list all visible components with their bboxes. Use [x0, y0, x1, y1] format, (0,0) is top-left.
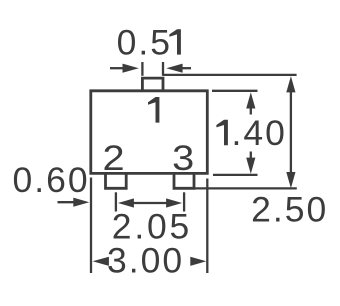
1.40 up arrowhead [246, 92, 255, 108]
2.50 up arrowhead [286, 76, 295, 92]
pin number 1 [148, 97, 159, 123]
1.40 dim lower shaft [250, 152, 252, 160]
extension tick right of 0.51 [162, 62, 164, 76]
0.51 right arrow shaft [182, 67, 191, 69]
1.40 dim upper shaft [250, 107, 252, 115]
top extension line to 2.50 [163, 74, 297, 76]
2.05 left arrowhead [118, 198, 134, 207]
right vertical extension for 3.00 [206, 179, 208, 274]
2.05 left tick [115, 192, 117, 211]
extension tick left of 0.51 [141, 62, 143, 76]
pin 2 lead [106, 173, 127, 188]
0.51 right arrowhead [166, 64, 182, 73]
svg-text:3.00: 3.00 [107, 241, 184, 281]
bottom extension line to 2.50 [194, 187, 297, 189]
0.51 left arrow shaft [110, 67, 124, 69]
package body [91, 91, 208, 174]
0.60 arrow shaft [58, 201, 76, 203]
svg-text:2.50: 2.50 [251, 190, 328, 230]
0.51 left arrowhead [123, 64, 139, 73]
3.00 left arrowhead [93, 257, 109, 266]
3.00 right arrowhead [190, 257, 206, 266]
0.60 arrowhead [73, 198, 89, 207]
2.50 dim shaft [290, 90, 292, 174]
2.05 dim shaft [134, 202, 167, 204]
svg-text:0.5: 0.5 [117, 22, 172, 62]
2.05 right arrowhead [166, 198, 182, 207]
1.40 down arrowhead [246, 158, 255, 174]
bottom extension line for 1.40 [213, 174, 258, 176]
top extension line for 1.40 [212, 90, 258, 92]
svg-text:0.60: 0.60 [13, 160, 90, 200]
left vertical extension for 3.00 [90, 178, 92, 274]
svg-text:3: 3 [172, 138, 196, 178]
pin 1 top tab [142, 78, 163, 91]
svg-text:.40: .40 [232, 113, 287, 153]
2.50 down arrowhead [286, 172, 295, 188]
dim text 1.40 [216, 120, 228, 145]
pin 3 lead [174, 173, 194, 188]
2.05 right tick [183, 192, 185, 211]
svg-text:2: 2 [103, 138, 127, 178]
